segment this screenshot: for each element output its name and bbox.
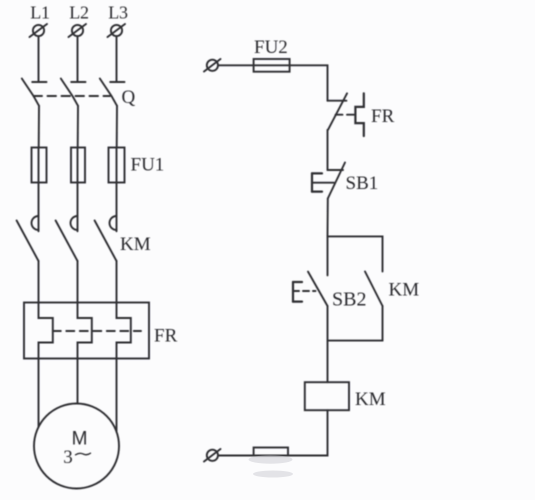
svg-text:KM: KM bbox=[389, 280, 420, 301]
thermal relay FR linkage bbox=[53, 330, 141, 332]
wire terminal to FU2 bbox=[218, 64, 254, 66]
fuse FU1 pole 2 bbox=[71, 148, 85, 183]
switch Q pole 3 bbox=[100, 79, 125, 106]
contactor KM main contact pole 1 bbox=[17, 216, 39, 261]
switch Q linkage bbox=[34, 95, 111, 97]
smudge artifacts bbox=[249, 455, 294, 477]
wire parallel join bbox=[328, 340, 383, 342]
svg-text:3: 3 bbox=[63, 447, 73, 468]
thermal relay FR heater pole 1 bbox=[39, 303, 53, 359]
svg-text:L3: L3 bbox=[108, 3, 128, 23]
wire KM to FR pole2 bbox=[77, 261, 79, 303]
switch Q pole 1 bbox=[22, 79, 47, 106]
fuse FU1 pole 3 bbox=[109, 148, 125, 183]
terminal L2 bbox=[69, 3, 89, 38]
motor M bbox=[34, 404, 119, 489]
wire KM to FR pole1 bbox=[38, 261, 40, 303]
terminal control bottom bbox=[204, 449, 221, 462]
svg-text:M: M bbox=[72, 429, 88, 450]
svg-text:FU2: FU2 bbox=[254, 37, 288, 58]
stop button SB1 (NC) bbox=[312, 163, 378, 199]
thermal relay FR heater pole 2 bbox=[78, 303, 92, 359]
svg-text:KM: KM bbox=[120, 234, 151, 255]
thermal contact FR (NC) bbox=[328, 93, 395, 136]
terminal control top bbox=[204, 59, 221, 72]
coil KM bbox=[305, 382, 386, 410]
thermal relay FR box bbox=[24, 303, 149, 359]
wire FR to motor pole1 bbox=[38, 359, 40, 428]
wire Q to FU1 pole3 bbox=[116, 106, 118, 148]
thermal relay FR heater pole 3 bbox=[117, 303, 131, 359]
svg-text:L1: L1 bbox=[30, 3, 49, 23]
wire FR to SB1 bbox=[327, 130, 329, 170]
wire junction to KM branch bbox=[328, 236, 383, 271]
svg-text:FU1: FU1 bbox=[131, 155, 165, 176]
wire Q to FU1 pole2 bbox=[77, 106, 79, 148]
svg-text:L2: L2 bbox=[69, 3, 88, 23]
svg-text:FR: FR bbox=[154, 326, 178, 347]
fuse FU1 pole 1 bbox=[32, 148, 47, 183]
wire FU1 to KM pole1 bbox=[38, 183, 40, 232]
svg-text:FR: FR bbox=[371, 106, 395, 127]
wire FR to motor pole2 bbox=[77, 359, 79, 404]
fuse bottom bbox=[254, 448, 288, 456]
contactor KM main contact pole 2 bbox=[56, 216, 78, 261]
contactor KM main contact pole 3 bbox=[95, 216, 117, 261]
wire FU2 to bus bbox=[290, 65, 328, 100]
svg-text:SB1: SB1 bbox=[346, 173, 379, 194]
fuse FU2 bbox=[254, 37, 290, 72]
wire junction to SB2 bbox=[327, 236, 329, 275]
terminal L1 bbox=[30, 3, 50, 38]
wire FU1 to KM pole2 bbox=[77, 183, 79, 232]
wire KM to FR pole3 bbox=[116, 261, 118, 303]
wire FR to motor pole3 bbox=[116, 359, 118, 432]
svg-text:KM: KM bbox=[355, 389, 386, 410]
wire L1 to Q bbox=[38, 37, 40, 83]
terminal L3 bbox=[108, 3, 128, 38]
wire Q to FU1 pole1 bbox=[38, 106, 40, 148]
start button SB2 (NO) bbox=[293, 272, 366, 311]
svg-text:SB2: SB2 bbox=[332, 289, 366, 311]
wire SB2 to coil bbox=[327, 306, 329, 382]
contactor KM auxiliary contact (NO) bbox=[365, 272, 419, 307]
wire coil to bottom bbox=[218, 410, 328, 455]
wire KM aux to join bbox=[382, 306, 384, 341]
switch Q pole 2 bbox=[61, 79, 86, 106]
wire L2 to Q bbox=[77, 37, 79, 83]
wire L3 to Q bbox=[116, 37, 118, 83]
wire FU1 to KM pole3 bbox=[116, 183, 118, 232]
wire SB1 to junction bbox=[327, 199, 329, 237]
svg-text:Q: Q bbox=[122, 87, 136, 108]
